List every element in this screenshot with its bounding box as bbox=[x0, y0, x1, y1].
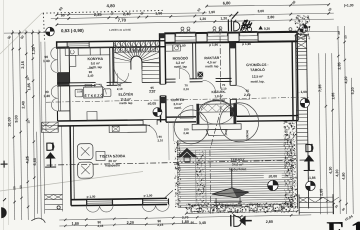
section line A-A horizontal bbox=[47, 160, 311, 165]
svg-text:p 1,90: p 1,90 bbox=[242, 42, 251, 46]
left chain header line bbox=[4, 32, 45, 35]
svg-text:20: 20 bbox=[12, 186, 16, 190]
top dimension line 3 bbox=[57, 19, 334, 25]
south window casement arcs bbox=[86, 205, 113, 212]
foyer door arc from dining bbox=[117, 73, 128, 84]
svg-text:2,70: 2,70 bbox=[182, 216, 189, 220]
svg-text:2,10: 2,10 bbox=[221, 87, 227, 91]
svg-text:0,30: 0,30 bbox=[264, 27, 270, 31]
garden umbrella table bbox=[231, 168, 233, 188]
svg-text:2,10: 2,10 bbox=[157, 138, 163, 142]
svg-text:±0,05: ±0,05 bbox=[148, 102, 157, 106]
svg-text:p 1,00: p 1,00 bbox=[144, 194, 153, 198]
svg-text:6,80: 6,80 bbox=[223, 0, 232, 5]
svg-text:2,10: 2,10 bbox=[117, 87, 123, 91]
terrace flower boxes bbox=[191, 205, 199, 211]
gyumolcs door bbox=[229, 85, 237, 99]
north wall right wing (thick with windows) bbox=[165, 32, 297, 44]
bottom dimension lines bbox=[59, 215, 311, 220]
svg-text:3,40: 3,40 bbox=[199, 221, 206, 225]
overhang dotted line bbox=[43, 10, 163, 13]
bush pyramid bbox=[177, 148, 198, 158]
vent circles window 3 bbox=[242, 27, 246, 31]
svg-text:mettl. lap: mettl. lap bbox=[119, 101, 132, 105]
armchair 1 bbox=[77, 144, 93, 160]
dining table bbox=[84, 87, 103, 98]
wire bbox=[0, 0, 143, 230]
west wall pier (dark) bbox=[57, 73, 70, 85]
room separation TISZTA SZOBA top wall bbox=[58, 120, 167, 126]
svg-text:9,00: 9,00 bbox=[14, 115, 18, 122]
svg-text:4,30: 4,30 bbox=[335, 169, 339, 176]
porch opening / veranda columns bbox=[196, 104, 199, 125]
svg-text:50: 50 bbox=[344, 35, 348, 39]
svg-text:É T K E Z Ő: É T K E Z Ő bbox=[84, 93, 103, 98]
staircase hatch top (X) bbox=[114, 41, 159, 52]
section marker right (arrow up + DD) bbox=[306, 144, 313, 151]
door foyer->stairhall arc bbox=[114, 66, 131, 83]
window RAKTAR/MOSDO/GYUMOLCS (p.190) bbox=[176, 32, 195, 37]
svg-text:7,70: 7,70 bbox=[118, 18, 127, 23]
interior wall mosdo/raktar bbox=[193, 43, 196, 79]
north wall left wing bbox=[57, 41, 166, 48]
svg-text:10,00: 10,00 bbox=[8, 117, 12, 127]
svg-text:2,15: 2,15 bbox=[157, 223, 163, 227]
door gap tiszta szoba bbox=[143, 120, 157, 125]
interior wall stair/foyer + door bbox=[113, 82, 118, 85]
top dimension line 2 bbox=[51, 13, 334, 19]
svg-text:1,35: 1,35 bbox=[32, 47, 36, 54]
svg-text:20: 20 bbox=[337, 31, 341, 35]
section line C horizontal bbox=[46, 97, 310, 102]
svg-text:4,20: 4,20 bbox=[344, 76, 348, 83]
tiszta szoba SE door leaf bbox=[164, 190, 173, 198]
sw stoop bbox=[37, 132, 38, 214]
west windows casement arcs bbox=[51, 47, 58, 60]
svg-text:mettl. lap: mettl. lap bbox=[205, 64, 218, 68]
side stair treads bbox=[296, 50, 307, 52]
west entry steps bbox=[42, 122, 59, 133]
gyumolcs west wall bbox=[230, 42, 237, 116]
bottom-left curve bbox=[31, 218, 45, 223]
raktar stove bbox=[197, 72, 203, 78]
svg-text:mettl.: mettl. bbox=[174, 106, 182, 110]
south wall right wing bbox=[237, 116, 299, 122]
svg-text:1,85: 1,85 bbox=[331, 93, 335, 100]
door ELOTER to porch bbox=[180, 105, 193, 118]
svg-text:2,25: 2,25 bbox=[94, 12, 103, 17]
svg-text:1,20: 1,20 bbox=[220, 17, 227, 21]
vent circles above windows bbox=[181, 27, 184, 30]
dining cupboard bbox=[87, 112, 97, 121]
mosdo door arc bbox=[179, 68, 190, 79]
kitchen counter bbox=[65, 48, 78, 56]
terrace paving hatch bbox=[177, 139, 292, 207]
porch door arcs bbox=[199, 112, 233, 124]
svg-text:2,80: 2,80 bbox=[267, 15, 274, 19]
svg-text:mettl. lap.: mettl. lap. bbox=[251, 79, 265, 83]
north axis symbols (section D markers + arrow) bbox=[228, 19, 231, 31]
svg-text:F 1: F 1 bbox=[326, 216, 360, 230]
interior wall kitchen/stair bbox=[110, 47, 113, 85]
south wall left wing with windows bbox=[71, 198, 167, 205]
svg-text:1,85: 1,85 bbox=[27, 83, 31, 90]
kitchen door arc bbox=[96, 84, 107, 95]
veranda lattice transom bbox=[199, 104, 233, 112]
svg-text:2,15: 2,15 bbox=[21, 61, 25, 68]
svg-text:1,40: 1,40 bbox=[43, 94, 50, 98]
tree canopy 1 bbox=[174, 110, 208, 144]
svg-text:1.20/20 cm szintki: 1.20/20 cm szintki bbox=[109, 28, 131, 32]
terrace border planting left bbox=[174, 141, 181, 207]
svg-text:TÁROLÓ: TÁROLÓ bbox=[250, 67, 265, 72]
east wall right wing bbox=[292, 32, 298, 121]
survey marker top-left bbox=[46, 27, 55, 36]
veranda steps bbox=[192, 124, 241, 130]
svg-text:50: 50 bbox=[19, 185, 23, 189]
svg-text:12,5 m²: 12,5 m² bbox=[252, 74, 264, 78]
svg-text:1,20: 1,20 bbox=[200, 17, 207, 21]
svg-text:2,10: 2,10 bbox=[244, 93, 251, 97]
svg-text:10: 10 bbox=[26, 77, 30, 81]
svg-text:50: 50 bbox=[61, 13, 65, 17]
door KOZLEK to terrace bbox=[236, 104, 249, 117]
svg-text:1,90: 1,90 bbox=[208, 10, 215, 14]
svg-text:7,35: 7,35 bbox=[318, 85, 322, 92]
bed/cabinet top bbox=[109, 125, 146, 133]
svg-text:2,40: 2,40 bbox=[183, 131, 189, 135]
porch path edges bbox=[168, 122, 170, 160]
svg-text:p 1,00: p 1,00 bbox=[87, 195, 96, 199]
terrace border planting bottom bbox=[186, 203, 294, 214]
svg-text:1,50: 1,50 bbox=[155, 12, 162, 16]
right dimension lines bbox=[319, 53, 321, 214]
svg-text:±0,00: ±0,00 bbox=[268, 174, 277, 178]
svg-text:2,59: 2,59 bbox=[77, 89, 83, 93]
terrace border planting right bbox=[284, 122, 297, 209]
mosdo fixtures bbox=[166, 45, 173, 51]
svg-text:2,85: 2,85 bbox=[319, 189, 323, 196]
svg-text:90: 90 bbox=[191, 221, 195, 225]
west wall with windows bbox=[56, 42, 59, 121]
svg-text:4,80: 4,80 bbox=[106, 3, 115, 8]
svg-text:3,00: 3,00 bbox=[257, 9, 264, 13]
room label TERASZ halo bbox=[219, 155, 255, 172]
svg-text:2,85: 2,85 bbox=[337, 62, 341, 69]
svg-text:MOSÓDÓ: MOSÓDÓ bbox=[173, 55, 189, 60]
extra stipple dots bbox=[287, 134, 288, 135]
svg-text:TISZTA SZOBA: TISZTA SZOBA bbox=[100, 154, 126, 158]
svg-text:(+1,30: (+1,30 bbox=[344, 3, 354, 7]
tree canopy 2 bbox=[219, 103, 258, 142]
stair newel bbox=[131, 56, 142, 70]
stair lower treads right bbox=[142, 61, 160, 63]
side table bbox=[96, 151, 105, 160]
svg-text:2,40: 2,40 bbox=[88, 74, 94, 78]
side stair X top bbox=[296, 34, 307, 48]
section marker bottom (DD + arrow left) bbox=[230, 215, 232, 226]
svg-text:- 1,00: - 1,00 bbox=[299, 90, 307, 94]
eaves line right of NE corner bbox=[297, 30, 339, 33]
west windows frame lines bbox=[57, 47, 59, 72]
svg-text:-1,85: -1,85 bbox=[308, 176, 316, 180]
shrub marker (dark scribble) bbox=[240, 20, 252, 31]
svg-text:1,80: 1,80 bbox=[182, 220, 189, 224]
svg-text:1,80: 1,80 bbox=[72, 222, 79, 226]
south window casement arcs bbox=[142, 204, 169, 211]
interior wall kitchen/dining bbox=[57, 82, 113, 86]
svg-text:4,25: 4,25 bbox=[25, 156, 29, 163]
east wing wall (between wings) bbox=[159, 33, 166, 122]
svg-text:10: 10 bbox=[27, 120, 31, 124]
svg-text:RAKTÁR: RAKTÁR bbox=[204, 55, 219, 60]
section line B-B vertical/diagonal bbox=[208, 28, 222, 214]
svg-text:mettl. lap: mettl. lap bbox=[89, 65, 102, 69]
terrace level marker halo bbox=[264, 173, 282, 179]
veranda arch bbox=[199, 100, 233, 110]
interior wall below mosdo/raktar bbox=[166, 78, 232, 82]
west eaves lines bbox=[41, 42, 42, 132]
svg-text:1,40: 1,40 bbox=[43, 59, 50, 63]
side stair treads lower bbox=[296, 109, 307, 111]
terrace mid planting strip bbox=[195, 150, 206, 206]
svg-text:0,83 (-0,90): 0,83 (-0,90) bbox=[61, 28, 84, 33]
svg-text:2,40: 2,40 bbox=[21, 101, 25, 108]
armchair 2 bbox=[78, 162, 94, 178]
raktar door arc bbox=[203, 80, 216, 93]
svg-text:2,15: 2,15 bbox=[97, 224, 103, 228]
svg-text:150/240: 150/240 bbox=[245, 130, 249, 141]
svg-text:6,60: 6,60 bbox=[33, 158, 37, 165]
svg-text:4,80: 4,80 bbox=[342, 172, 346, 179]
side stair walls bbox=[296, 35, 298, 209]
svg-text:p 1,90: p 1,90 bbox=[177, 44, 186, 48]
svg-text:4,30: 4,30 bbox=[329, 167, 333, 174]
dining chairs bbox=[75, 89, 83, 97]
stair/foyer boundary bbox=[114, 82, 131, 84]
kitchen window (north) bbox=[66, 42, 68, 48]
section marker left (arrow up + DD) bbox=[47, 143, 54, 150]
svg-text:2,10: 2,10 bbox=[183, 87, 189, 91]
svg-text:2,40: 2,40 bbox=[123, 11, 132, 16]
trellis bottom right bbox=[299, 197, 333, 212]
left margin mark bbox=[1, 161, 8, 168]
svg-text:mettl. lap: mettl. lap bbox=[174, 65, 187, 69]
left dimension lines bbox=[12, 30, 14, 220]
svg-text:2,80: 2,80 bbox=[266, 220, 273, 224]
svg-text:GYÜMÖLCS -: GYÜMÖLCS - bbox=[246, 63, 269, 67]
svg-text:17×17,6/29: 17×17,6/29 bbox=[130, 49, 143, 52]
staircase upper flight treads bbox=[113, 42, 116, 83]
shrub top right corner bbox=[295, 15, 310, 39]
svg-text:mettl. lap: mettl. lap bbox=[212, 98, 225, 102]
svg-text:2,20: 2,20 bbox=[127, 221, 134, 225]
svg-text:5,20: 5,20 bbox=[351, 87, 355, 94]
top dimension line 1 bbox=[57, 13, 207, 15]
svg-text:ELŐTÉR: ELŐTÉR bbox=[118, 92, 133, 97]
svg-text:p 1,90: p 1,90 bbox=[209, 43, 218, 47]
